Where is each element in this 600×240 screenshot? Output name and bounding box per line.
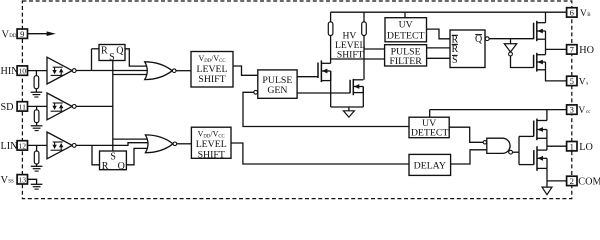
ground COM (open triangle) xyxy=(542,187,552,195)
box VDD/VCC level shift (high side) xyxy=(191,52,233,88)
svg-text:Q: Q xyxy=(116,45,124,56)
wire SD pin to buffer xyxy=(28,105,48,107)
wire pulse filter out2 to latch xyxy=(427,57,450,59)
svg-text:LIN: LIN xyxy=(1,141,19,152)
wire SD buffer output xyxy=(76,105,113,107)
svg-text:R: R xyxy=(451,44,458,55)
wire LIN to latch R xyxy=(92,145,100,164)
svg-text:6: 6 xyxy=(570,8,575,18)
wire SD to bottom gate xyxy=(113,138,150,140)
wire SD resistor stub xyxy=(36,106,38,109)
wire HIN resistor stub xyxy=(35,71,37,76)
wire G2 output to level shift xyxy=(177,143,192,145)
wire LS2 to delay xyxy=(231,143,409,164)
wire pulse gen out2 xyxy=(297,92,350,94)
transistor Q5 (LO pull-up) xyxy=(533,121,535,137)
ground HV (open triangle) xyxy=(343,111,354,117)
wire latch U2 Q to gate xyxy=(126,148,150,164)
ground LIN resistor xyxy=(31,165,43,167)
wire G3 output xyxy=(513,151,520,153)
svg-text:S: S xyxy=(109,52,115,63)
resistor R1 (HV pullup left) xyxy=(328,22,333,36)
wire LO tap xyxy=(547,145,567,147)
IC package boundary (dashed) xyxy=(22,1,571,199)
nor gate G2 (low side) xyxy=(145,135,173,153)
wire VCC to Q5 drain xyxy=(546,110,548,121)
svg-text:V: V xyxy=(579,78,586,88)
transistor Q6 (LO pull-down) xyxy=(533,150,535,165)
wire HIN buffer output xyxy=(76,70,149,72)
svg-text:SD: SD xyxy=(1,102,14,113)
pin 1 box xyxy=(567,142,577,151)
wire R2 node to pulse filter in1 xyxy=(364,48,385,50)
wire LS1 to pulse gen xyxy=(233,66,258,75)
ground HIN resistor xyxy=(31,91,43,93)
wire pulse gen out1 xyxy=(297,76,318,78)
svg-text:S: S xyxy=(110,151,116,162)
svg-text:SHIFT: SHIFT xyxy=(198,149,225,160)
svg-text:s: s xyxy=(586,80,588,86)
svg-text:SS: SS xyxy=(8,180,14,185)
pin 12 box xyxy=(17,141,27,150)
wire Q to inverter xyxy=(510,39,512,44)
svg-text:LEVEL: LEVEL xyxy=(196,64,227,75)
latch U3 Q output bubble xyxy=(485,37,489,41)
pin 9 box xyxy=(17,29,27,38)
wire R1 to Q1 drain xyxy=(330,36,332,64)
transistor Q1 (HV level shift left) xyxy=(317,63,319,79)
wire LIN buffer output xyxy=(76,143,150,146)
svg-text:2: 2 xyxy=(570,176,574,186)
svg-text:1: 1 xyxy=(570,141,574,151)
wire Q6 source to COM xyxy=(546,168,548,181)
box UV detect (low side) xyxy=(409,117,449,138)
wire VB to resistor R1 xyxy=(330,12,332,22)
svg-text:R: R xyxy=(101,46,108,57)
svg-text:9: 9 xyxy=(20,29,24,39)
resistor SD pulldown xyxy=(34,110,39,123)
box UV detect (high side) xyxy=(385,18,427,42)
wire UV2 out to nand xyxy=(449,127,483,142)
wire LIN pin to buffer xyxy=(28,144,48,146)
svg-text:11: 11 xyxy=(19,103,27,112)
schmitt buffer LIN xyxy=(47,132,72,159)
wire R2 to Q2 drain xyxy=(363,36,365,80)
latch U1 (R S Q) box xyxy=(99,45,125,61)
svg-text:Q: Q xyxy=(475,34,483,45)
svg-text:7: 7 xyxy=(570,45,575,55)
wire Q1 source down xyxy=(330,71,332,107)
wire HIN pin to buffer xyxy=(28,70,48,72)
transistor Q3 (HO pull-up) xyxy=(533,23,535,40)
svg-text:R: R xyxy=(102,161,109,172)
wire SD to top gate xyxy=(113,74,149,76)
resistor HIN pulldown xyxy=(34,76,39,89)
wire R1 node to pulse filter in2 xyxy=(331,58,385,60)
wire UV2 to pulse gen inhibit xyxy=(243,92,409,126)
svg-text:V: V xyxy=(2,29,10,40)
wire HIN to latch R xyxy=(91,49,93,71)
pin 13 box xyxy=(17,175,27,184)
wire VSS to ground xyxy=(28,179,37,184)
svg-text:V: V xyxy=(580,9,587,19)
ground SD resistor xyxy=(31,125,43,127)
nor gate G1 (high side) xyxy=(145,62,173,80)
svg-text:HO: HO xyxy=(579,45,594,56)
pin 6 box xyxy=(567,8,577,17)
pin 3 box xyxy=(567,105,577,114)
wire UV1 out to latch R1 xyxy=(427,29,451,39)
svg-text:S: S xyxy=(452,55,458,66)
wire pulse filter out1 to latch xyxy=(427,47,450,49)
box pulse filter xyxy=(385,45,427,66)
svg-text:Q: Q xyxy=(118,161,126,172)
svg-text:SHIFT: SHIFT xyxy=(198,74,225,85)
pin 10 box xyxy=(17,66,27,75)
wire G3 to gates xyxy=(518,136,520,164)
ground VSS xyxy=(31,183,43,185)
nand gate G3 xyxy=(487,138,510,153)
svg-text:FILTER: FILTER xyxy=(389,56,422,67)
wire VCC to UV2 xyxy=(429,110,431,118)
wire VB to resistor R2 xyxy=(363,12,365,22)
wire HO node xyxy=(545,39,547,55)
wire delay out to nand xyxy=(451,150,487,164)
wire Q4 source to VS xyxy=(546,70,567,81)
resistor R2 (HV pullup right) xyxy=(362,22,367,36)
svg-text:GEN: GEN xyxy=(267,85,287,96)
svg-text:13: 13 xyxy=(19,175,27,184)
bubble pulse gen inhibit input xyxy=(254,90,258,94)
wire latch U1 Q to gate xyxy=(125,49,149,66)
resistor LIN pulldown xyxy=(34,151,39,164)
svg-text:V: V xyxy=(578,106,585,116)
svg-text:10: 10 xyxy=(19,67,27,76)
wire Q2 source down xyxy=(362,87,364,108)
inverter U4 xyxy=(504,44,516,52)
svg-text:UV: UV xyxy=(399,19,413,30)
box VDD/VCC level shift (low side) xyxy=(191,127,231,158)
wire VDD arrow xyxy=(28,33,48,35)
svg-text:3: 3 xyxy=(570,105,574,115)
wire inverter out to low gate xyxy=(511,56,534,68)
schmitt buffer HIN xyxy=(47,57,72,84)
pin 11 box xyxy=(17,102,27,111)
wire COM to ground xyxy=(546,181,548,187)
wire VB rail xyxy=(331,11,567,13)
box pulse gen xyxy=(258,70,297,98)
pin 5 box xyxy=(567,76,577,85)
wire VB to Q3 drain xyxy=(545,12,547,23)
svg-text:LO: LO xyxy=(579,142,593,153)
wire Q to high-side driver xyxy=(489,38,533,40)
pin 7 box xyxy=(567,45,577,54)
wire HO tap xyxy=(546,48,567,50)
svg-text:SHIFT: SHIFT xyxy=(337,50,364,61)
svg-text:cc: cc xyxy=(586,109,591,115)
schmitt buffer SD xyxy=(47,93,72,120)
wire LO node xyxy=(546,138,548,150)
wire to HV ground xyxy=(348,107,350,111)
wire G1 output to level shift xyxy=(176,70,191,72)
svg-text:COM: COM xyxy=(578,177,600,188)
svg-text:DELAY: DELAY xyxy=(414,160,446,171)
wire SD vertical bus xyxy=(112,61,114,152)
svg-text:DETECT: DETECT xyxy=(411,128,449,139)
wire VCC rail xyxy=(430,109,567,111)
latch U3 (RRS/Q) box xyxy=(450,30,485,68)
svg-text:DD: DD xyxy=(9,34,17,39)
box delay xyxy=(409,154,451,175)
transistor Q4 (HO pull-down) xyxy=(533,55,535,68)
wire HV source rail xyxy=(331,106,364,108)
svg-text:DETECT: DETECT xyxy=(387,31,425,42)
transistor Q2 (HV level shift right) xyxy=(349,80,351,93)
latch U2 (S R Q) box xyxy=(100,151,127,170)
wire LIN resistor stub xyxy=(36,145,38,151)
svg-text:12: 12 xyxy=(19,142,27,151)
pin 2 box xyxy=(567,176,577,185)
wire VB to UV1 xyxy=(404,12,406,18)
svg-text:5: 5 xyxy=(570,76,574,86)
